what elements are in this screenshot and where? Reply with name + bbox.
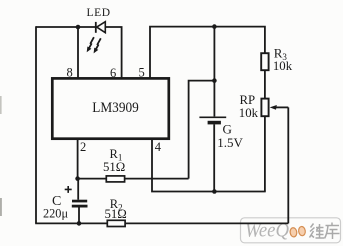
- LED symbol (cathode bar + triangle): [95, 22, 97, 33]
- wire: pin 4 drop and mid rail: [152, 139, 266, 192]
- LED light arrow 1: [89, 37, 94, 48]
- IC U1 LM3909: [52, 78, 169, 138]
- wire: R1 row right: [125, 178, 189, 180]
- watermark WeeQoo weiku box: [241, 218, 341, 243]
- wire: pin 5 riser and top rail to R3: [150, 27, 265, 79]
- svg-text:51Ω: 51Ω: [103, 160, 125, 174]
- wire: RP bottom to mid rail corner: [264, 116, 266, 191]
- wire: left rail vertical: [35, 26, 37, 223]
- wire: top-left horizontal rail to LED cathode: [36, 26, 96, 28]
- scan smudges on left edge (decorative): [0, 96, 2, 114]
- node: junction C / ground rail: [77, 221, 82, 226]
- wire: bottom ground rail, R2 to wiper corner: [125, 222, 288, 224]
- svg-text:51Ω: 51Ω: [105, 207, 127, 221]
- svg-text:2: 2: [80, 140, 86, 154]
- capacitor C plates: [72, 200, 87, 203]
- capacitor C polarity plus: [65, 186, 72, 193]
- svg-text:10k: 10k: [239, 106, 259, 120]
- wire: pin 2 drop: [77, 139, 79, 179]
- resistor R2: [107, 220, 125, 226]
- LED light arrow 2: [96, 38, 101, 49]
- wire: battery minus stem: [213, 124, 215, 191]
- RP wiper arrow: [276, 106, 288, 108]
- resistor R3: [261, 53, 268, 70]
- wire: R3 to RP: [264, 70, 266, 98]
- svg-text:4: 4: [155, 140, 162, 154]
- capacitor C lower stem: [78, 208, 80, 224]
- node: junction battery feed / top rail: [212, 24, 217, 29]
- capacitor C upper stem: [77, 179, 79, 200]
- svg-text:LED: LED: [87, 7, 111, 19]
- watermark char ku: [325, 223, 340, 240]
- svg-text:220μ: 220μ: [43, 207, 68, 221]
- svg-text:1.5V: 1.5V: [217, 135, 243, 150]
- svg-text:LM3909: LM3909: [92, 100, 139, 116]
- wire: LED anode to pin 6 riser: [105, 27, 121, 79]
- wire: battery positive feed: [213, 27, 215, 117]
- watermark char wei: [310, 224, 325, 239]
- wire: bottom ground rail, left rail to R2: [35, 222, 107, 224]
- node: battery minus junction on mid rail: [212, 189, 217, 194]
- node: junction pin8 / top rail: [76, 25, 81, 30]
- resistor R1: [106, 176, 124, 182]
- node: junction pin2 / R1 / C: [75, 176, 80, 181]
- watermark oo (orange): [290, 226, 306, 237]
- wire: wiper drop to bottom rail: [287, 107, 289, 223]
- wire: pin 8 riser: [77, 27, 79, 79]
- svg-text:10k: 10k: [273, 59, 293, 73]
- wire: R1 row left: [78, 178, 107, 180]
- potentiometer RP body: [261, 99, 268, 117]
- battery G plates: [199, 116, 226, 118]
- wire: branch battery node to R1 right end: [189, 81, 215, 179]
- node: junction battery feed / branch to R1: [212, 78, 217, 83]
